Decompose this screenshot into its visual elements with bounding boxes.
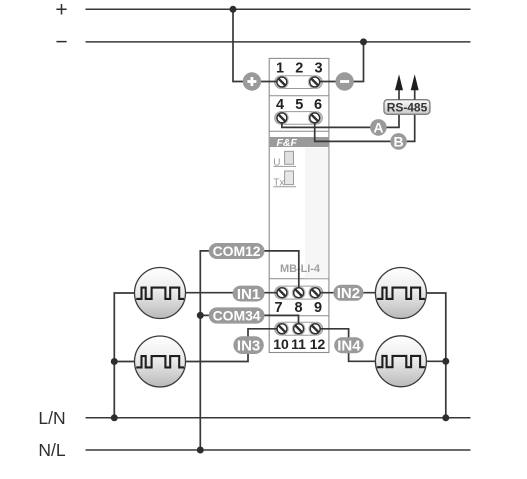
- L/N rail wire: [86, 417, 471, 419]
- pill COM34: [209, 307, 265, 323]
- device divider under terminals 1-3: [269, 95, 329, 97]
- device divider above terminals 10-12: [269, 315, 329, 317]
- svg-text:COM34: COM34: [213, 308, 261, 324]
- pulse source bottom-left: [135, 336, 186, 387]
- wire terminal 12 to IN4: [315, 329, 375, 362]
- screw terminal 4: [277, 113, 287, 123]
- pill IN3: [233, 336, 263, 354]
- junction left bus at lower source: [111, 358, 118, 365]
- wire IN1 to terminal 7: [186, 292, 283, 294]
- terminal strip 7-9: [275, 286, 323, 299]
- svg-text:IN1: IN1: [237, 286, 260, 303]
- F&F logo band: [270, 137, 329, 147]
- negative rail wire: [86, 41, 471, 43]
- polarity circle +: [243, 72, 261, 90]
- pill IN4: [334, 337, 363, 354]
- wire − rail to terminal 3: [315, 42, 364, 82]
- svg-text:11: 11: [291, 336, 306, 352]
- polarity circle −: [335, 72, 353, 90]
- pill IN1: [233, 286, 265, 303]
- RS-485 label box: [384, 100, 430, 115]
- svg-text:L/N: L/N: [38, 408, 65, 428]
- screw terminal 1: [277, 77, 287, 87]
- wire terminal 9 to IN2: [315, 292, 375, 294]
- wire terminal 4 to node A and RS-485: [282, 114, 399, 127]
- screw terminal 6: [310, 113, 320, 123]
- left bus wire to L/N: [114, 293, 134, 418]
- wire left lower source to bus: [114, 361, 134, 363]
- terminal strip 4-6: [275, 112, 323, 125]
- svg-text:12: 12: [310, 336, 326, 352]
- right bus wire to L/N: [426, 293, 445, 418]
- N/L rail wire: [86, 449, 471, 451]
- pulse source top-right: [375, 268, 426, 319]
- wire terminal 6 to node B and RS-485: [315, 114, 415, 141]
- node B: [390, 133, 407, 150]
- device divider under terminals 4-6: [269, 130, 329, 132]
- wire + rail to terminal 1: [233, 9, 282, 81]
- device MB-LI-4 outline: [269, 58, 329, 352]
- screw terminal 12: [310, 324, 320, 334]
- svg-text:IN3: IN3: [237, 338, 260, 355]
- pill COM12: [209, 243, 265, 259]
- svg-text:6: 6: [314, 97, 322, 113]
- LED window U: [285, 151, 294, 164]
- junction right bus on L/N: [442, 414, 449, 421]
- svg-text:IN2: IN2: [337, 285, 360, 302]
- junction on + rail: [230, 6, 237, 13]
- svg-text:RS-485: RS-485: [387, 100, 428, 114]
- pill IN2: [333, 285, 363, 302]
- svg-text:N/L: N/L: [38, 440, 66, 460]
- node A: [370, 119, 387, 136]
- svg-text:COM12: COM12: [213, 243, 261, 259]
- LED window Tx: [285, 171, 294, 185]
- svg-text:+: +: [55, 0, 67, 22]
- svg-text:9: 9: [314, 300, 322, 316]
- device divider above terminals 7-9: [269, 278, 329, 280]
- junction COM bus at COM34: [197, 312, 204, 319]
- positive rail wire: [86, 8, 471, 10]
- wire IN3 to terminal 10: [186, 329, 283, 362]
- screw terminal 3: [310, 77, 320, 87]
- svg-text:3: 3: [314, 61, 322, 77]
- screw terminal 7: [277, 288, 287, 298]
- svg-text:IN4: IN4: [337, 338, 361, 355]
- svg-text:4: 4: [276, 97, 284, 113]
- junction on − rail: [360, 38, 367, 45]
- svg-text:F&F: F&F: [277, 137, 298, 149]
- device face side shading: [305, 148, 329, 279]
- wire COM34 to terminal 11: [200, 315, 298, 328]
- terminal strip 1-3: [275, 76, 323, 89]
- underline under U: [273, 165, 296, 167]
- screw terminal 11: [294, 324, 304, 334]
- screw terminal 10: [277, 324, 287, 334]
- terminal strip 10-12: [275, 322, 323, 335]
- underline under Tx: [273, 186, 296, 188]
- svg-text:−: −: [55, 31, 67, 54]
- RS-485 arrow right: [411, 74, 419, 99]
- wire right lower source to bus: [426, 360, 445, 362]
- wire COM12 to terminal 8: [264, 251, 299, 293]
- pulse source bottom-right: [375, 336, 426, 387]
- svg-text:5: 5: [295, 97, 303, 113]
- screw terminal 8: [294, 288, 304, 298]
- svg-text:MB-LI-4: MB-LI-4: [280, 263, 321, 275]
- svg-text:B: B: [394, 133, 404, 149]
- svg-text:A: A: [373, 119, 383, 135]
- pulse source top-left: [135, 268, 186, 319]
- svg-text:10: 10: [273, 336, 289, 352]
- svg-text:8: 8: [295, 300, 303, 316]
- junction COM bus on N/L: [197, 447, 204, 454]
- svg-text:1: 1: [276, 61, 284, 77]
- COM bus wire to N/L: [200, 251, 209, 450]
- junction right bus at lower source: [442, 358, 449, 365]
- screw terminal 9: [310, 288, 320, 298]
- svg-text:2: 2: [295, 61, 303, 77]
- junction left bus on L/N: [111, 414, 118, 421]
- svg-text:7: 7: [274, 300, 282, 316]
- RS-485 arrow left: [395, 74, 403, 99]
